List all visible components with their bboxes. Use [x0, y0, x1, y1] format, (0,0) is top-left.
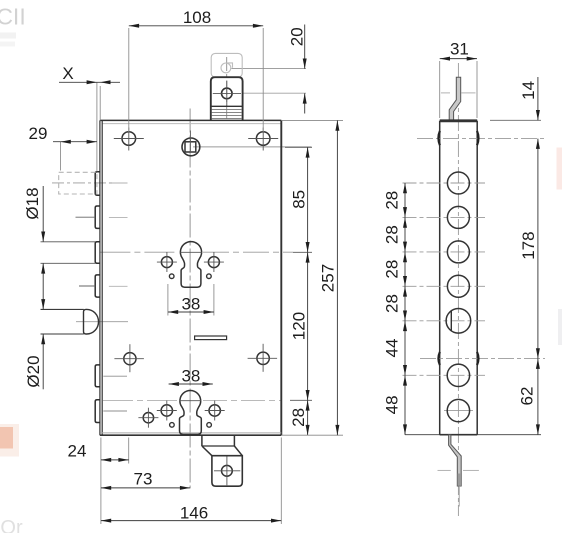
svg-text:38: 38: [181, 366, 200, 385]
svg-text:CII: CII: [0, 3, 26, 29]
svg-text:24: 24: [68, 442, 87, 461]
svg-text:85: 85: [289, 190, 308, 209]
svg-text:178: 178: [519, 231, 538, 259]
svg-text:28: 28: [383, 225, 402, 244]
svg-text:146: 146: [180, 503, 208, 522]
svg-text:44: 44: [383, 339, 402, 358]
svg-text:73: 73: [134, 469, 153, 488]
svg-text:X: X: [62, 64, 73, 83]
svg-text:28: 28: [383, 191, 402, 210]
svg-text:28: 28: [383, 260, 402, 279]
svg-text:257: 257: [319, 264, 338, 292]
svg-text:29: 29: [29, 124, 48, 143]
svg-text:Ø20: Ø20: [24, 355, 43, 387]
svg-text:62: 62: [518, 387, 537, 406]
svg-text:14: 14: [519, 81, 538, 100]
svg-text:38: 38: [181, 294, 200, 313]
svg-text:28: 28: [383, 294, 402, 313]
svg-text:28: 28: [289, 408, 308, 427]
svg-text:120: 120: [290, 312, 309, 340]
svg-text:Or: Or: [0, 517, 23, 533]
svg-text:20: 20: [288, 27, 307, 46]
svg-text:108: 108: [183, 8, 211, 27]
svg-text:Ø18: Ø18: [23, 187, 42, 219]
svg-text:31: 31: [450, 40, 469, 59]
svg-text:48: 48: [383, 395, 402, 414]
